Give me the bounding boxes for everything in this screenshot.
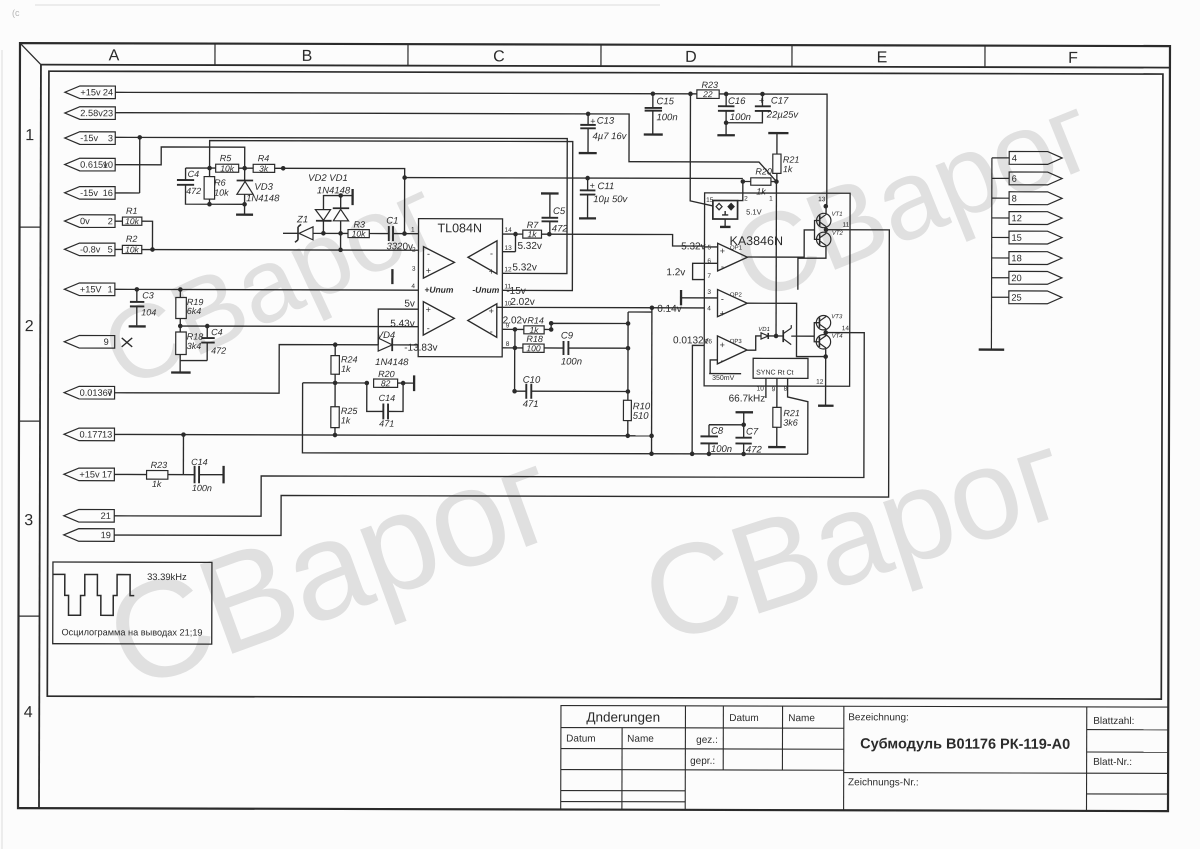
svg-text:3: 3 — [24, 512, 33, 529]
svg-text:82: 82 — [381, 378, 391, 388]
svg-text:24: 24 — [103, 87, 113, 97]
svg-text:D: D — [685, 49, 697, 66]
svg-text:14: 14 — [505, 227, 513, 234]
svg-text:R20: R20 — [755, 167, 772, 177]
svg-text:1: 1 — [25, 127, 34, 144]
svg-text:C7: C7 — [746, 426, 759, 437]
svg-text:Name: Name — [788, 713, 815, 724]
svg-text:TL084N: TL084N — [438, 221, 483, 235]
svg-text:VD1: VD1 — [758, 327, 770, 333]
svg-text:Bezeichnung:: Bezeichnung: — [848, 712, 909, 723]
svg-text:9: 9 — [772, 386, 776, 393]
svg-text:+15v: +15v — [79, 469, 100, 479]
svg-text:-15v: -15v — [80, 188, 98, 198]
svg-text:0.177: 0.177 — [79, 429, 102, 439]
svg-text:8: 8 — [784, 386, 788, 393]
svg-text:-Unum: -Unum — [472, 285, 499, 295]
svg-text:16: 16 — [103, 188, 113, 198]
svg-text:3k4: 3k4 — [187, 341, 202, 351]
svg-text:1.2v: 1.2v — [666, 267, 685, 278]
svg-text:gepr.:: gepr.: — [690, 756, 715, 767]
svg-text:4: 4 — [707, 305, 711, 312]
svg-text:C8: C8 — [711, 426, 724, 437]
svg-text:350mV: 350mV — [712, 375, 735, 382]
svg-text:12: 12 — [816, 379, 824, 386]
svg-text:+Unum: +Unum — [424, 285, 454, 295]
svg-text:5: 5 — [707, 244, 711, 251]
svg-text:Name: Name — [627, 734, 654, 745]
svg-text:472: 472 — [211, 346, 226, 356]
svg-text:1k: 1k — [341, 415, 351, 425]
svg-text:33.39kHz: 33.39kHz — [147, 571, 187, 582]
svg-text:471: 471 — [523, 399, 539, 410]
svg-text:R4: R4 — [258, 153, 270, 163]
svg-text:2: 2 — [108, 216, 113, 226]
svg-text:VT1: VT1 — [832, 212, 843, 218]
svg-text:19: 19 — [101, 530, 111, 540]
svg-text:4: 4 — [24, 704, 33, 721]
svg-text:12: 12 — [504, 266, 512, 273]
svg-text:4: 4 — [1012, 153, 1017, 163]
svg-text:C3: C3 — [142, 290, 154, 300]
svg-text:(c: (c — [12, 8, 20, 18]
svg-text:5.32v: 5.32v — [681, 241, 705, 252]
svg-text:C13: C13 — [597, 116, 615, 127]
svg-text:2.02v: 2.02v — [510, 297, 534, 308]
svg-text:5: 5 — [108, 245, 113, 255]
svg-text:2: 2 — [412, 247, 416, 254]
svg-text:17: 17 — [102, 470, 112, 480]
svg-text:Blatt-Nr.:: Blatt-Nr.: — [1093, 757, 1132, 768]
svg-text:100n: 100n — [561, 357, 582, 368]
svg-text:5.1V: 5.1V — [746, 207, 761, 216]
svg-text:100n: 100n — [656, 112, 677, 123]
svg-text:15: 15 — [706, 197, 714, 204]
svg-text:-: - — [490, 326, 493, 336]
svg-text:R23: R23 — [151, 460, 168, 470]
svg-text:4µ7 16v: 4µ7 16v — [592, 131, 627, 142]
svg-text:C5: C5 — [553, 206, 566, 217]
svg-text:10: 10 — [103, 160, 113, 170]
svg-text:Zeichnungs-Nr.:: Zeichnungs-Nr.: — [848, 777, 919, 788]
svg-text:+: + — [720, 340, 725, 350]
svg-text:-13.83v: -13.83v — [404, 343, 437, 354]
svg-text:C4: C4 — [211, 327, 223, 337]
svg-text:+: + — [590, 181, 595, 191]
svg-text:R1: R1 — [126, 206, 138, 216]
svg-text:10k: 10k — [352, 229, 366, 239]
svg-text:10: 10 — [757, 386, 765, 393]
svg-text:Datum: Datum — [729, 713, 758, 724]
svg-text:3: 3 — [108, 133, 113, 143]
svg-text:1: 1 — [108, 284, 113, 294]
svg-text:1k: 1k — [341, 364, 351, 374]
svg-text:+15v: +15v — [80, 87, 101, 97]
svg-text:VT4: VT4 — [832, 334, 844, 340]
svg-text:+: + — [590, 116, 595, 126]
svg-text:100n: 100n — [730, 112, 751, 123]
svg-text:3: 3 — [707, 289, 711, 296]
svg-text:5.43v: 5.43v — [390, 319, 414, 330]
svg-text:5.32v: 5.32v — [512, 262, 536, 273]
svg-text:22µ25v: 22µ25v — [766, 110, 800, 121]
svg-text:10µ 50v: 10µ 50v — [593, 194, 628, 205]
svg-text:Datum: Datum — [566, 734, 595, 745]
svg-text:471: 471 — [379, 419, 394, 429]
svg-text:3k: 3k — [259, 164, 269, 174]
svg-text:R2: R2 — [126, 234, 138, 244]
svg-text:VD2 VD1: VD2 VD1 — [308, 173, 348, 184]
svg-text:472: 472 — [552, 223, 569, 234]
svg-text:B: B — [302, 48, 313, 65]
svg-text:7: 7 — [107, 388, 112, 398]
svg-text:-15v: -15v — [80, 133, 98, 143]
svg-text:23: 23 — [103, 108, 113, 118]
svg-text:16: 16 — [705, 338, 713, 345]
svg-text:Дnderungen: Дnderungen — [586, 710, 660, 725]
svg-text:0.0132v: 0.0132v — [673, 335, 709, 346]
svg-text:5.32v: 5.32v — [517, 241, 541, 252]
svg-text:7: 7 — [707, 273, 711, 280]
svg-text:100n: 100n — [711, 444, 732, 455]
svg-text:-0.8v: -0.8v — [80, 244, 101, 254]
svg-text:12: 12 — [1012, 213, 1022, 223]
svg-text:+: + — [759, 96, 764, 106]
svg-text:C: C — [493, 48, 505, 65]
svg-text:C4: C4 — [188, 169, 200, 179]
svg-text:25: 25 — [1011, 293, 1021, 303]
svg-text:VT3: VT3 — [831, 314, 843, 320]
svg-text:1: 1 — [769, 196, 773, 203]
svg-text:1N4148: 1N4148 — [246, 193, 280, 204]
svg-text:104: 104 — [141, 307, 156, 317]
svg-text:+: + — [720, 246, 725, 256]
svg-text:C14: C14 — [379, 393, 396, 403]
svg-text:472: 472 — [746, 444, 763, 455]
svg-text:1k: 1k — [527, 229, 537, 239]
svg-text:332: 332 — [386, 241, 403, 252]
svg-text:A: A — [109, 47, 120, 64]
svg-text:22: 22 — [702, 89, 713, 99]
svg-text:C10: C10 — [523, 375, 541, 386]
svg-text:1N4148: 1N4148 — [317, 185, 351, 196]
svg-text:+: + — [489, 266, 494, 276]
svg-text:C9: C9 — [561, 331, 574, 342]
svg-text:10k: 10k — [214, 188, 229, 198]
svg-text:5v: 5v — [404, 299, 415, 310]
svg-text:VT2: VT2 — [832, 231, 844, 237]
svg-text:11: 11 — [843, 222, 850, 229]
svg-text:VD3: VD3 — [254, 182, 273, 193]
svg-text:10k: 10k — [220, 163, 234, 173]
svg-text:+15V: +15V — [80, 284, 103, 294]
svg-text:-: - — [721, 294, 724, 304]
svg-text:C15: C15 — [657, 96, 675, 107]
svg-text:6: 6 — [1012, 174, 1017, 184]
svg-text:1k: 1k — [756, 187, 766, 197]
svg-text:C11: C11 — [598, 181, 615, 192]
svg-text:0v: 0v — [80, 216, 90, 226]
svg-text:1k: 1k — [529, 325, 539, 335]
svg-text:9: 9 — [506, 322, 510, 329]
svg-text:OP2: OP2 — [730, 292, 743, 298]
svg-text:+: + — [426, 266, 431, 276]
svg-text:2.58v: 2.58v — [80, 108, 103, 118]
svg-text:C17: C17 — [771, 96, 789, 107]
svg-text:1N4148: 1N4148 — [375, 357, 409, 368]
svg-text:10: 10 — [504, 300, 512, 307]
svg-text:66.7kHz: 66.7kHz — [729, 393, 766, 404]
svg-text:18: 18 — [1011, 253, 1021, 263]
svg-text:-: - — [721, 261, 724, 271]
svg-text:510: 510 — [633, 411, 650, 422]
svg-text:-: - — [721, 355, 724, 365]
svg-text:11: 11 — [504, 283, 511, 290]
svg-text:+: + — [426, 305, 431, 315]
svg-text:472: 472 — [186, 186, 201, 196]
svg-text:9: 9 — [104, 337, 109, 347]
svg-text:1: 1 — [411, 227, 415, 234]
svg-text:8: 8 — [506, 341, 510, 348]
svg-text:0.14v: 0.14v — [657, 304, 681, 315]
svg-text:OP1: OP1 — [730, 245, 743, 251]
svg-text:100: 100 — [526, 343, 540, 353]
svg-text:R5: R5 — [220, 153, 233, 163]
svg-text:10k: 10k — [125, 216, 139, 226]
svg-text:14: 14 — [842, 325, 850, 332]
svg-text:-: - — [427, 323, 430, 333]
svg-text:VD4: VD4 — [377, 330, 396, 341]
svg-text:Субмодуль В01176 РК-119-А0: Субмодуль В01176 РК-119-А0 — [860, 736, 1070, 753]
svg-text:8: 8 — [1012, 193, 1017, 203]
svg-text:-: - — [490, 248, 493, 258]
svg-text:13: 13 — [504, 245, 512, 252]
svg-text:21: 21 — [101, 511, 111, 521]
svg-text:gez.:: gez.: — [696, 735, 718, 746]
svg-text:1k: 1k — [152, 479, 162, 489]
svg-text:4: 4 — [411, 283, 415, 290]
svg-text:C14: C14 — [191, 457, 208, 467]
svg-text:Z1: Z1 — [296, 214, 308, 225]
svg-text:1k: 1k — [783, 164, 793, 174]
svg-text:Осцилограмма на выводах 21;19: Осцилограмма на выводах 21;19 — [61, 627, 202, 637]
svg-text:3k6: 3k6 — [783, 418, 798, 428]
svg-text:6: 6 — [707, 258, 711, 265]
svg-text:OP3: OP3 — [730, 339, 743, 345]
svg-text:10k: 10k — [125, 244, 139, 254]
svg-text:R6: R6 — [214, 178, 226, 188]
svg-text:3: 3 — [412, 266, 416, 273]
svg-text:Blattzahl:: Blattzahl: — [1093, 716, 1134, 727]
svg-text:15: 15 — [1011, 233, 1021, 243]
svg-text:F: F — [1068, 50, 1078, 67]
svg-text:13: 13 — [818, 196, 826, 203]
svg-text:-: - — [427, 249, 430, 259]
svg-text:2: 2 — [744, 195, 748, 202]
svg-text:100n: 100n — [192, 483, 212, 493]
svg-text:+: + — [720, 308, 725, 318]
svg-text:20: 20 — [1011, 273, 1021, 283]
svg-text:6k4: 6k4 — [187, 306, 202, 316]
svg-text:+: + — [489, 306, 494, 316]
svg-text:13: 13 — [102, 430, 112, 440]
svg-text:C1: C1 — [386, 216, 398, 227]
svg-text:SYNC Rt Ct: SYNC Rt Ct — [756, 370, 793, 377]
svg-text:E: E — [877, 49, 888, 66]
svg-text:C16: C16 — [728, 96, 746, 107]
svg-text:2: 2 — [25, 318, 34, 335]
